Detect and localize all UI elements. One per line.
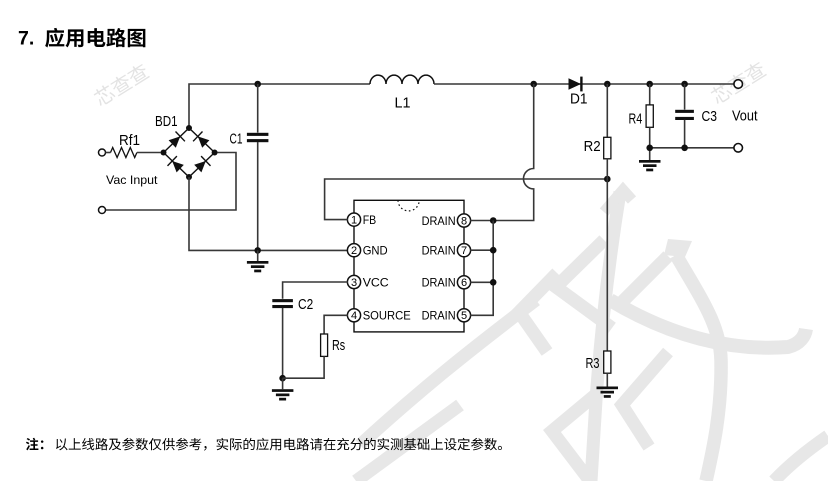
svg-text:L1: L1 xyxy=(395,95,411,112)
ground G1 xyxy=(257,250,259,261)
junction dot xyxy=(279,375,286,382)
note text xyxy=(56,438,502,451)
watermark top-left xyxy=(92,62,151,108)
svg-text:2: 2 xyxy=(351,245,357,257)
svg-text:C3: C3 xyxy=(702,108,718,125)
svg-text:D1: D1 xyxy=(570,91,588,108)
resistor R3 xyxy=(604,351,611,373)
IC notch xyxy=(398,200,419,211)
ground xyxy=(247,261,269,272)
watermark top-right xyxy=(709,60,768,106)
ground xyxy=(639,160,661,171)
wire switch node with hop xyxy=(470,84,534,221)
ground G3 xyxy=(282,378,284,389)
watermark big logo xyxy=(356,190,828,481)
wire out minus xyxy=(650,147,734,149)
IC pin 4 SOURCE xyxy=(347,309,410,323)
IC pin 1 FB xyxy=(347,213,376,227)
svg-text:Rf1: Rf1 xyxy=(119,132,140,149)
svg-text:Vac Input: Vac Input xyxy=(106,173,158,187)
svg-text:R4: R4 xyxy=(629,111,643,128)
ground xyxy=(272,389,294,400)
svg-text:8: 8 xyxy=(461,215,467,227)
bridge rectifier BD1 xyxy=(161,125,218,180)
svg-text:Vout: Vout xyxy=(732,108,758,125)
wire FB net xyxy=(325,179,608,220)
capacitor C2 xyxy=(272,299,293,302)
svg-text:Rs: Rs xyxy=(332,337,345,354)
resistor R2 xyxy=(606,84,608,137)
title chinese xyxy=(45,28,145,48)
terminal Vout+ xyxy=(734,80,743,89)
op IC U1 box xyxy=(354,200,464,332)
ground G2 xyxy=(649,148,651,160)
svg-text:R2: R2 xyxy=(584,138,601,155)
svg-text:DRAIN: DRAIN xyxy=(422,244,456,258)
terminal vac2 xyxy=(99,207,106,214)
IC pin 8 DRAIN xyxy=(422,214,471,228)
IC pin 7 DRAIN xyxy=(422,244,471,258)
wire vac line2 xyxy=(105,153,236,211)
svg-text:5: 5 xyxy=(461,310,467,322)
diode D1 xyxy=(569,77,583,92)
svg-text:R3: R3 xyxy=(586,355,600,372)
capacitor C1 xyxy=(247,84,269,250)
svg-text:6: 6 xyxy=(461,277,467,289)
ground xyxy=(597,387,619,398)
wire bridge bottom to GND pin2 xyxy=(189,177,348,250)
svg-text:DRAIN: DRAIN xyxy=(422,309,456,323)
wire VCC xyxy=(283,282,348,299)
junction dots top rail xyxy=(254,81,687,88)
svg-text:C1: C1 xyxy=(230,131,243,148)
svg-text:3: 3 xyxy=(351,277,357,289)
IC pin 2 GND xyxy=(347,244,387,258)
resistor Rf1 xyxy=(99,148,161,158)
wire SOURCE xyxy=(324,315,348,334)
svg-text:DRAIN: DRAIN xyxy=(422,214,456,228)
wire top rail left xyxy=(189,84,370,128)
svg-text:4: 4 xyxy=(351,310,357,322)
junction dot gnd rail xyxy=(254,247,261,254)
svg-text:BD1: BD1 xyxy=(155,113,178,130)
svg-text:7.: 7. xyxy=(18,28,34,50)
svg-text:DRAIN: DRAIN xyxy=(422,276,456,290)
terminal Vout- xyxy=(734,144,743,153)
svg-text:GND: GND xyxy=(363,244,388,258)
capacitor C3 xyxy=(684,84,686,110)
svg-text:SOURCE: SOURCE xyxy=(363,309,411,323)
note bold xyxy=(26,438,44,451)
IC pin 3 VCC xyxy=(347,275,388,289)
wire top rail right xyxy=(434,83,734,85)
junction dots xyxy=(490,217,497,224)
resistor R4 xyxy=(649,84,651,105)
resistor Rs xyxy=(321,334,328,356)
svg-text:7: 7 xyxy=(461,245,467,257)
svg-text:FB: FB xyxy=(363,213,377,227)
svg-text:1: 1 xyxy=(351,215,357,227)
svg-text:VCC: VCC xyxy=(363,275,389,289)
svg-text:C2: C2 xyxy=(298,296,313,313)
IC pin 5 DRAIN xyxy=(422,309,471,323)
IC pin 6 DRAIN xyxy=(422,276,471,290)
wire drain bus xyxy=(470,221,493,316)
inductor L1 xyxy=(370,75,434,84)
